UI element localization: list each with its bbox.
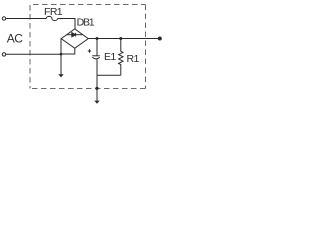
ground arrow bottom <box>94 101 99 104</box>
wire top rail left of fuse <box>6 18 47 20</box>
resistor R1 <box>119 39 123 76</box>
wire cap/resistor bottom rail <box>97 74 121 76</box>
terminal AC live <box>2 17 5 20</box>
wire DC output rail <box>88 38 160 40</box>
wire ground drop <box>96 75 98 101</box>
wire top rail right of fuse <box>58 19 76 30</box>
wire junction to bridge left vertex <box>60 39 62 55</box>
svg-text:E1: E1 <box>104 51 116 63</box>
wire bridge bottom vertex to junction <box>61 48 75 54</box>
wire bottom rail (AC neutral to junction) <box>6 53 61 55</box>
svg-text:DB1: DB1 <box>77 17 95 29</box>
svg-text:R1: R1 <box>127 53 140 65</box>
dashed enclosure border <box>30 5 146 89</box>
junction dot <box>60 53 63 56</box>
junction dot on border <box>95 87 98 90</box>
terminal AC neutral <box>2 53 5 56</box>
junction node resistor <box>119 37 122 40</box>
capacitor E1 <box>92 39 100 76</box>
ground arrow left <box>60 54 62 74</box>
output terminal dot <box>158 37 162 41</box>
bridge rectifier DB1 <box>61 29 88 48</box>
polarity plus sign <box>88 49 91 52</box>
junction node cap <box>96 37 99 40</box>
svg-text:FR1: FR1 <box>44 6 63 18</box>
svg-text:AC: AC <box>7 31 24 45</box>
fuse FR1 <box>46 16 57 20</box>
